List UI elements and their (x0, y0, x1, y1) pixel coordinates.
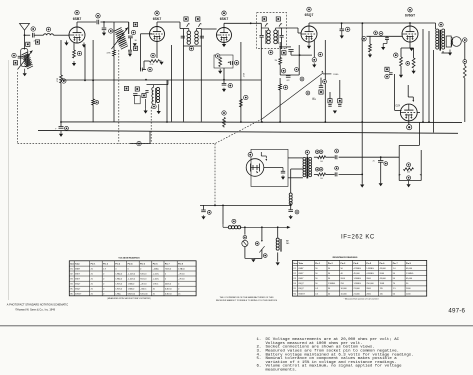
wire V5 grid (367, 35, 403, 37)
boxed ref terminal (135, 87, 139, 91)
ground V3 cathode (222, 42, 226, 47)
tube label OZ4 (395, 105, 400, 108)
resistor R2 (150, 60, 160, 63)
svg-text:Item: Item (70, 262, 74, 265)
junction C20 (341, 22, 343, 24)
tube label 6SB7 (73, 17, 82, 21)
ground C25 (379, 183, 383, 186)
svg-text:6SK7: 6SK7 (75, 278, 81, 280)
svg-text:1.9AC0: 1.9AC0 (128, 283, 136, 286)
junction V5 plate (409, 22, 411, 24)
wire R10 up (279, 78, 281, 84)
capacitor C15 (319, 86, 323, 88)
terminal box (135, 96, 141, 104)
boxed ref N (385, 67, 389, 71)
svg-text:10: 10 (223, 127, 225, 129)
notes list (257, 337, 414, 373)
wire (25, 34, 31, 36)
circled ref C25 (384, 162, 388, 166)
wire negative rail (61, 121, 462, 124)
value 25mf (373, 160, 375, 162)
wire IFT0 left rail down (113, 56, 115, 122)
dashed gang link osc (118, 50, 120, 144)
wire rect feed (395, 109, 402, 111)
svg-text:-1.2DC0: -1.2DC0 (128, 273, 136, 275)
value 470K vertical (244, 72, 246, 77)
wire vib to PT a (288, 157, 303, 159)
wire rect right (417, 112, 420, 114)
svg-text:A PHOTOFACT STANDARD NOTATION: A PHOTOFACT STANDARD NOTATION SCHEMATIC (7, 303, 68, 307)
tube V5 6V6GT output (402, 26, 418, 42)
wire V1 cathode (73, 43, 75, 50)
wire T1 right lead (129, 38, 131, 50)
circled ref R2 (151, 53, 155, 57)
wire R12 down (400, 66, 402, 75)
capacitor C22 (335, 155, 337, 159)
capacitor C23 (335, 172, 337, 176)
adjust tick a (187, 23, 190, 26)
wire T2 entry (180, 22, 183, 29)
svg-text:6SQ7: 6SQ7 (75, 289, 81, 291)
text photofact (7, 303, 68, 307)
capacitor C28 buffer (281, 171, 285, 173)
capacitor C30 trim (128, 36, 133, 38)
junction AF feed (362, 22, 364, 24)
svg-text:44DC0: 44DC0 (165, 284, 172, 286)
svg-text:6SK7: 6SK7 (153, 17, 162, 21)
wire T3 left lead (260, 23, 262, 35)
wire R9 up (279, 42, 281, 58)
capacitor C20 (340, 29, 345, 31)
circled ref C22 (335, 149, 339, 153)
svg-text:4.5MEG: 4.5MEG (366, 273, 374, 275)
wire AF coupling (280, 74, 299, 76)
capacitor C4 osc coupling (97, 20, 99, 25)
value 470K (107, 53, 112, 55)
svg-text:(MEASURED WITH VACUUM TUBE VOL: (MEASURED WITH VACUUM TUBE VOLTMETER) (107, 297, 151, 300)
svg-text:10,000: 10,000 (341, 288, 348, 290)
wire C11 drop (223, 80, 225, 84)
wire C15 up (320, 78, 322, 86)
coil output primary (436, 29, 439, 49)
junction C13 (279, 46, 281, 48)
circled ref R6 (216, 54, 220, 58)
value 1M (275, 60, 278, 62)
wire T1 corner b (128, 22, 130, 34)
svg-text:6SK7: 6SK7 (75, 273, 81, 275)
wire right edge lower (464, 78, 466, 122)
wire B+ column c (433, 50, 435, 133)
svg-text:6SB7: 6SB7 (73, 17, 82, 21)
wire V3 plate to T3 (224, 22, 261, 24)
wire V2 cathode down (156, 42, 158, 59)
svg-text:* Measured from junction of C1: * Measured from junction of C12 and C13 (344, 298, 379, 301)
capacitor C19b (389, 73, 393, 75)
resistor R20 (113, 50, 116, 56)
dashed gang to osc (150, 107, 152, 144)
wire C25 down (380, 162, 382, 183)
svg-text:250,000: 250,000 (366, 283, 374, 285)
wire (34, 34, 43, 36)
capacitor C1A tuning (18, 56, 23, 58)
svg-text:4.7MEG: 4.7MEG (354, 268, 362, 270)
svg-text:700K: 700K (380, 283, 385, 285)
svg-text:43,000: 43,000 (380, 268, 387, 270)
circled ref R16 (315, 167, 319, 171)
ground pilot (276, 262, 280, 265)
coil T2 primary (187, 31, 191, 44)
junction rail x224 (223, 121, 225, 123)
junction rail x61 (60, 121, 62, 123)
circled ref C12 (318, 52, 322, 56)
wire V1 return b (92, 40, 94, 99)
wire A plus (240, 226, 291, 229)
wire C18 jog (383, 40, 387, 46)
svg-text:6SQ7: 6SQ7 (305, 13, 314, 17)
coil L2 form (21, 49, 28, 67)
tube V2 6SK7 IF amplifier (150, 27, 165, 42)
ground C20 (340, 31, 344, 39)
ground R1 (72, 61, 76, 66)
wire PT mid tap (291, 168, 303, 170)
text copyright (15, 309, 55, 312)
ground C26 (289, 215, 293, 219)
ground V4 cathode (307, 42, 311, 49)
junction rail x167 (166, 121, 168, 123)
boxed ref T2-H (196, 17, 200, 21)
wire T-osc top (147, 80, 169, 87)
coil output secondary (442, 29, 445, 49)
wire V5 cathode (409, 42, 411, 48)
coil L2 antenna b (24, 54, 34, 69)
capacitor C11 (222, 83, 227, 85)
dashed gang link bottom (18, 143, 216, 145)
circled ref L1 (46, 27, 50, 31)
wire sec join (361, 157, 363, 183)
wire vib to PT b (288, 177, 303, 179)
junction gang (138, 143, 140, 145)
capacitor C13 coupling (288, 50, 293, 52)
junction sec (361, 174, 363, 176)
wire R21 down (92, 105, 94, 122)
vibrator (246, 159, 264, 177)
junction rail x240 (240, 121, 242, 123)
wire to box M (339, 80, 341, 99)
wire sec up (361, 23, 363, 157)
node antenna input (24, 34, 26, 36)
wire R9 down (279, 65, 281, 76)
svg-text:1 MEG: 1 MEG (333, 74, 339, 76)
wire C6 left (140, 69, 142, 71)
svg-text:100: 100 (320, 178, 323, 180)
svg-text:-1.4DC0: -1.4DC0 (128, 278, 136, 280)
svg-text:71DC0: 71DC0 (140, 278, 147, 280)
wire rect cathode (408, 120, 410, 124)
wire C27 drop (203, 205, 205, 209)
coil T1 primary (115, 28, 126, 47)
dashed AF diagonal (215, 119, 262, 144)
wire gang tap (130, 143, 150, 145)
capacitor C16 (328, 105, 331, 107)
ground C11 (222, 88, 226, 92)
circled ref R14 (463, 60, 467, 64)
capacitor T3 trim a (260, 35, 264, 37)
svg-text:THE COOPERATION OF THE MANUFAC: THE COOPERATION OF THE MANUFACTURER OF T… (220, 296, 275, 299)
wire R10 down (279, 90, 281, 122)
circled ref T4 (439, 22, 443, 26)
label SP (312, 98, 315, 100)
capacitor osc trim (145, 91, 148, 93)
speaker (446, 36, 461, 47)
wire fuse down (244, 247, 246, 259)
resistor R10 (279, 84, 282, 90)
wire sec a3 (339, 156, 363, 158)
wire fuse drop (244, 227, 246, 234)
boxed ref C15 (319, 90, 323, 94)
boxed ref C13 value (282, 51, 286, 55)
svg-text:21,000: 21,000 (354, 288, 361, 290)
circled ref R10 (283, 85, 287, 89)
fuse holder (242, 240, 248, 246)
wire sec b3 (339, 173, 363, 175)
svg-text:400: 400 (407, 172, 410, 174)
wire AF diagonal (262, 73, 323, 119)
coil L1 wave trap (44, 34, 54, 36)
wire T3 to V4 grid (279, 28, 301, 33)
svg-text:Item: Item (293, 262, 297, 265)
core L6 (280, 239, 281, 252)
wire vibrator out (264, 168, 283, 172)
circled ref C13 (281, 69, 285, 73)
svg-text:6SB7: 6SB7 (75, 268, 81, 270)
svg-text:1.9DC0: 1.9DC0 (115, 289, 123, 291)
capacitor C21 (59, 127, 64, 129)
circled ref extra a (300, 77, 304, 81)
wire V2 plate to T2 (157, 21, 180, 23)
svg-text:6SQ7: 6SQ7 (75, 284, 81, 286)
wire AVC bus upper (60, 40, 62, 75)
ground V1 grid return (64, 41, 68, 46)
resistor R6 volume (219, 58, 222, 67)
wire T-osc gnd a (145, 99, 147, 109)
svg-text:1.5MEG: 1.5MEG (354, 283, 362, 285)
circled ref C10 (234, 61, 238, 65)
wire V1 plate up (76, 22, 78, 27)
coil T2 secondary (195, 31, 199, 44)
wire heater rail (38, 130, 458, 133)
wire C13 out (291, 54, 312, 56)
wire AVC bus horizontal (61, 79, 153, 81)
circled ref V1 (75, 10, 79, 14)
resistor R12 cathode (400, 57, 403, 66)
wire V4 plate bus (309, 22, 436, 24)
resistor R3 AVC (60, 75, 63, 83)
wire C13 bottom (290, 51, 292, 55)
circled ref R17 (407, 163, 411, 167)
ground R12 (399, 75, 403, 78)
junction switch (261, 226, 263, 228)
core output transformer (440, 30, 442, 51)
circled ref C11 (228, 83, 232, 87)
wire choke down (290, 203, 292, 209)
coil PT secondary (309, 157, 312, 176)
wire C20 drop (341, 23, 343, 29)
core T-osc (155, 88, 157, 104)
svg-text:43,000: 43,000 (380, 278, 387, 280)
svg-text:VOLTAGE READINGS: VOLTAGE READINGS (118, 256, 140, 259)
value 100b (320, 178, 323, 180)
value 36b (135, 40, 137, 42)
coil T-osc primary (152, 87, 154, 104)
circled ref C2 (31, 27, 35, 31)
value 1MEG (333, 74, 339, 76)
wire sec a (314, 156, 318, 158)
wire cathode split (401, 47, 414, 49)
wire pilot down (277, 252, 279, 261)
ground audio (333, 111, 337, 114)
boxed ref speaker a (328, 99, 332, 103)
circled ref gang (137, 141, 141, 145)
circled ref C23 (335, 166, 339, 170)
svg-text:72DC00: 72DC00 (140, 293, 148, 295)
svg-text:45,000: 45,000 (354, 273, 361, 275)
svg-text:43,000: 43,000 (406, 268, 413, 270)
coil T1 secondary (117, 31, 128, 50)
wire Rk up (400, 48, 402, 57)
wire speaker lead2 (441, 52, 450, 54)
capacitor C13 (286, 76, 291, 78)
separator rule (0, 325, 473, 327)
capacitor C5 bypass (102, 28, 107, 30)
circled ref R16 b (319, 167, 323, 171)
core T3 a (265, 30, 267, 44)
ground battery (251, 259, 255, 262)
text IF=262 KC (341, 235, 375, 241)
circled ref C5 (109, 29, 113, 33)
core T3 b (277, 30, 279, 44)
circled ref C18 (379, 32, 383, 36)
junction C5 (103, 21, 105, 23)
wire bias left (398, 145, 400, 180)
wire AVC bus lower (60, 83, 62, 122)
switch blade (259, 246, 264, 252)
svg-text:6.3DC0: 6.3DC0 (165, 293, 173, 295)
capacitor T2 trim b (200, 36, 204, 38)
wire AVC drop (166, 80, 168, 122)
wire to bias network (362, 156, 399, 158)
svg-text:RECEIVER MAKES IT POSSIBLE TO: RECEIVER MAKES IT POSSIBLE TO BRING YOU … (216, 299, 278, 302)
ground antenna coil (23, 69, 27, 77)
wire T2 right rail (200, 29, 202, 47)
junction hash choke (222, 205, 224, 207)
ground C21 (59, 131, 63, 137)
wire vibrator elbow (261, 152, 266, 158)
circled ref C20 (346, 27, 350, 31)
svg-text:BAT: BAT (286, 239, 289, 242)
wire C13 top (280, 46, 291, 48)
junction filter (290, 205, 292, 207)
arrow AF line (321, 71, 323, 73)
svg-text:1.5MEG: 1.5MEG (328, 283, 336, 285)
wire into T1 (112, 21, 129, 23)
variable core arrow T1 (112, 28, 129, 50)
dashed gang link drop (214, 144, 216, 206)
svg-text:1.9DC: 1.9DC (153, 284, 159, 286)
resistance readings table (293, 256, 427, 301)
circled ref V4 (307, 7, 311, 11)
svg-text:6V6GT: 6V6GT (299, 293, 306, 295)
ground R11 (368, 53, 372, 58)
svg-text:5.: 5. (257, 357, 262, 361)
wire AF drop (324, 40, 326, 122)
ground C27 (201, 215, 205, 219)
wire R11 up (369, 36, 371, 44)
coil L2 antenna (22, 52, 32, 67)
ground R2 (159, 62, 163, 65)
wire V4 plate up (308, 23, 310, 26)
arrow bias b (420, 174, 422, 176)
junction rail x362 (361, 121, 363, 123)
arrow volume wiper (228, 61, 230, 63)
wire V1 return a (84, 46, 86, 80)
svg-text:1.5MEG: 1.5MEG (366, 268, 374, 270)
wire T2 to V3 grid (201, 28, 216, 30)
wire T3 left lead b (260, 37, 262, 48)
arrow switch (261, 240, 263, 242)
circled ref rect (407, 125, 412, 130)
svg-text:10,000: 10,000 (341, 293, 348, 295)
boxed ref T1-D (133, 46, 137, 50)
tube V6 OZ4 rectifier (400, 104, 417, 121)
IF transformer T3 can (257, 13, 287, 49)
svg-text:6V6GT: 6V6GT (405, 14, 415, 18)
svg-text:1.5MEG: 1.5MEG (354, 278, 362, 280)
wire bias drop (418, 122, 420, 145)
capacitor C2 ant coupling (32, 33, 34, 38)
wire T2 lead b down (200, 46, 202, 122)
wire T3 right lead (281, 28, 283, 35)
boxed ref GB (26, 42, 30, 46)
svg-text:1.9AC0: 1.9AC0 (115, 277, 123, 280)
junction fuse (244, 226, 246, 228)
svg-text:-.65DC: -.65DC (140, 289, 147, 291)
boxed ref T3-J (262, 17, 266, 21)
capacitor T2 trim a (181, 36, 185, 38)
ground C5 (102, 31, 106, 36)
wire fuse gnd (245, 257, 254, 259)
junction rail x280 (279, 121, 281, 123)
svg-text:45,000: 45,000 (406, 278, 413, 280)
junction T3 feed (250, 22, 252, 24)
circled ref R21 (95, 100, 99, 104)
wire PT top lead (306, 154, 308, 156)
junction rail x325 (324, 121, 326, 123)
boxed ref T1-C (133, 22, 137, 26)
capacitor C27 (201, 210, 206, 212)
text coop 1 (220, 296, 275, 299)
ground volume (218, 69, 222, 74)
variable core arrow (18, 51, 33, 70)
boxed ref speaker b (338, 99, 342, 103)
tube V1 6SB7 converter (69, 27, 85, 43)
wire T3 right lead b (281, 37, 283, 48)
circled ref T1 (131, 30, 135, 34)
circled ref fuse (243, 235, 247, 239)
arrow bias a (399, 174, 401, 176)
svg-text:-.2DC0: -.2DC0 (140, 284, 147, 286)
wire right edge upper (464, 42, 466, 66)
junction A lead (214, 205, 216, 207)
